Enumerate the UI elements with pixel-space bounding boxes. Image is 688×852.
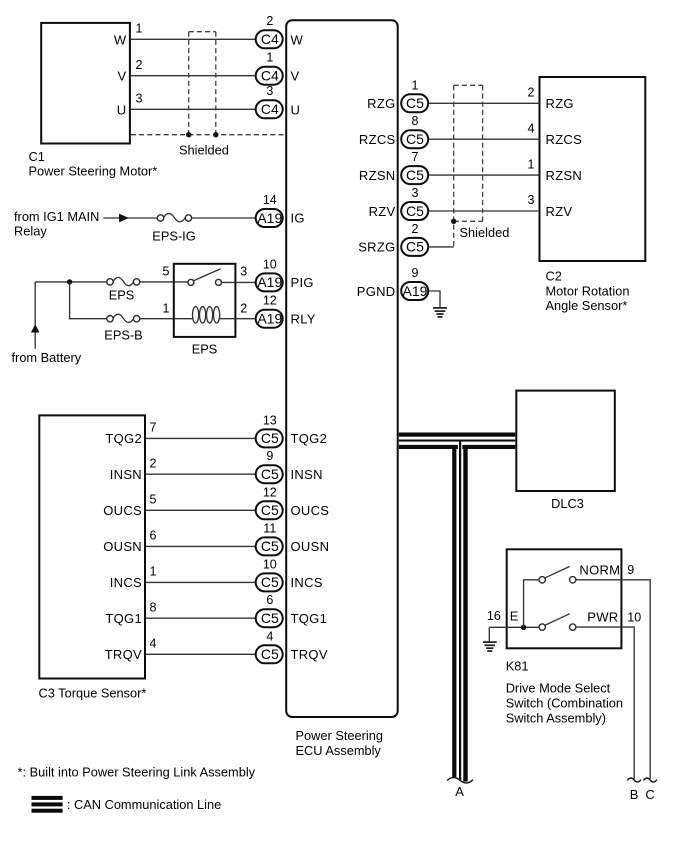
wire relay to PIG — [222, 281, 257, 283]
svg-text:C5: C5 — [406, 203, 424, 219]
svg-text:EPS-B: EPS-B — [104, 327, 142, 342]
wire RZCS — [429, 138, 540, 140]
ECU box Power Steering ECU Assembly — [286, 20, 398, 717]
svg-text:TQG1: TQG1 — [105, 611, 142, 626]
svg-text:12: 12 — [263, 294, 277, 308]
svg-text:from Battery: from Battery — [12, 350, 82, 365]
fuse EPS-B — [104, 314, 142, 342]
connector C5 pin 7 (RZSN) — [401, 150, 428, 184]
svg-text:12: 12 — [263, 485, 277, 499]
svg-text:OUSN: OUSN — [291, 539, 330, 554]
svg-text:OUCS: OUCS — [103, 503, 142, 518]
svg-text:1: 1 — [528, 157, 535, 171]
svg-text:C5: C5 — [406, 239, 424, 255]
ground PGND — [433, 308, 447, 317]
svg-text:INSN: INSN — [110, 467, 142, 482]
CAN bus horizontal bottom line — [399, 445, 516, 449]
DLC3 box — [516, 391, 615, 511]
svg-text:3: 3 — [266, 84, 273, 98]
svg-text:9: 9 — [266, 449, 273, 463]
svg-text:Switch Assembly): Switch Assembly) — [506, 711, 606, 726]
svg-text:9: 9 — [627, 563, 634, 577]
svg-text:TQG2: TQG2 — [105, 431, 142, 446]
connector C5 pin 3 (RZV) — [401, 186, 428, 220]
wire TQG1 — [146, 617, 256, 619]
svg-text:C1: C1 — [29, 149, 45, 164]
svg-text:W: W — [291, 32, 304, 47]
arrow from battery — [31, 324, 40, 332]
wire PWR to B — [576, 627, 634, 779]
switch NORM contacts — [539, 566, 576, 583]
wire E input — [489, 626, 539, 628]
wire fuse EPS-B to relay — [140, 318, 194, 320]
svg-text:10: 10 — [627, 611, 641, 625]
connector C5 pin 1 (RZG) — [401, 78, 428, 112]
svg-text:RLY: RLY — [291, 312, 316, 327]
CAN bus vertical left line — [452, 445, 456, 778]
relay switch contacts — [188, 269, 222, 286]
svg-text:RZCS: RZCS — [359, 132, 396, 147]
svg-text:*: Built into Power Steering L: *: Built into Power Steering Link Assemb… — [18, 765, 256, 780]
svg-text:RZCS: RZCS — [546, 132, 583, 147]
svg-text:1: 1 — [136, 22, 143, 36]
svg-text:8: 8 — [150, 600, 157, 614]
wire junction to NORM switch — [524, 580, 540, 628]
svg-text:A: A — [455, 784, 464, 799]
svg-text:1: 1 — [150, 565, 157, 579]
wire RZV — [429, 210, 540, 212]
svg-text:C5: C5 — [261, 466, 279, 482]
wire RZG — [429, 102, 540, 104]
wire PGND to ground — [429, 291, 440, 307]
fuse EPS-IG — [152, 213, 195, 243]
svg-text:C5: C5 — [261, 538, 279, 554]
svg-text:C5: C5 — [261, 610, 279, 626]
svg-text:RZV: RZV — [546, 204, 573, 219]
C3 box Torque Sensor — [39, 415, 147, 700]
svg-text:EPS: EPS — [109, 288, 135, 303]
connector C5 pin 8 (RZCS) — [401, 114, 428, 148]
connector C5 pin 13 (TQG2) — [256, 413, 283, 447]
C1 box Power Steering Motor — [29, 23, 158, 178]
svg-text:Drive Mode Select: Drive Mode Select — [506, 680, 611, 695]
svg-text:Shielded: Shielded — [460, 225, 510, 240]
svg-text:B: B — [630, 787, 639, 802]
connector C5 pin 2 (SRZG) — [401, 222, 428, 256]
wire INSN — [146, 473, 256, 475]
svg-text:2: 2 — [412, 222, 419, 236]
svg-text:C4: C4 — [261, 68, 279, 84]
svg-text:Power Steering: Power Steering — [296, 728, 384, 743]
CAN bus horizontal top line — [399, 433, 516, 437]
CAN bus horizontal middle line — [399, 440, 516, 442]
svg-text:from IG1 MAIN: from IG1 MAIN — [14, 209, 99, 224]
junction dot shield (sensor) — [451, 219, 456, 224]
svg-text:3: 3 — [528, 193, 535, 207]
junction dot shield right — [213, 132, 218, 137]
wire coil to RLY — [219, 318, 257, 320]
svg-text:INCS: INCS — [110, 575, 142, 590]
svg-text:TRQV: TRQV — [105, 647, 142, 662]
connector C5 pin 4 (TRQV) — [256, 629, 283, 663]
K81 box Drive Mode Select Switch — [506, 549, 623, 725]
connector C5 pin 9 (INSN) — [256, 449, 283, 483]
svg-text:Switch (Combination: Switch (Combination — [506, 696, 623, 711]
svg-text:10: 10 — [263, 257, 277, 271]
svg-text:A19: A19 — [257, 210, 282, 226]
svg-text:OUCS: OUCS — [291, 503, 330, 518]
svg-text:Angle Sensor*: Angle Sensor* — [546, 298, 628, 313]
connector C4 pin 2 (W) — [256, 14, 283, 48]
wire NORM to C — [576, 580, 650, 779]
wire TRQV — [146, 653, 256, 655]
relay EPS box — [174, 264, 236, 357]
connector A19 pin 10 (PIG) — [256, 257, 283, 291]
wire U — [131, 108, 256, 110]
connector A19 pin 9 (PGND) — [401, 266, 428, 300]
wire SRZG shield drain — [429, 246, 454, 248]
junction dot K81 — [521, 625, 526, 630]
svg-text:Shielded: Shielded — [179, 143, 229, 158]
svg-text:U: U — [117, 102, 127, 117]
svg-text:Motor Rotation: Motor Rotation — [546, 284, 630, 299]
svg-text:RZSN: RZSN — [359, 168, 396, 183]
connector C5 pin 11 (OUSN) — [256, 521, 283, 555]
wire IG — [104, 217, 257, 219]
svg-text:INSN: INSN — [291, 467, 323, 482]
svg-text:4: 4 — [150, 637, 157, 651]
wire break squiggle B — [627, 778, 641, 782]
svg-text:1: 1 — [412, 78, 419, 92]
svg-text:2: 2 — [528, 86, 535, 100]
svg-text:Relay: Relay — [14, 224, 47, 239]
svg-text:C5: C5 — [261, 574, 279, 590]
svg-text:C3 Torque Sensor*: C3 Torque Sensor* — [39, 686, 147, 701]
svg-text:C5: C5 — [261, 502, 279, 518]
connector C5 pin 6 (TQG1) — [256, 593, 283, 627]
relay coil — [193, 307, 220, 323]
svg-text:3: 3 — [240, 265, 247, 279]
shield dashed drain wire — [131, 134, 285, 136]
connector A19 pin 12 (RLY) — [256, 294, 283, 328]
svg-text:A19: A19 — [257, 274, 282, 290]
svg-text:5: 5 — [163, 265, 170, 279]
svg-text:2: 2 — [240, 302, 247, 316]
svg-text:TQG1: TQG1 — [291, 611, 328, 626]
svg-text:7: 7 — [150, 421, 157, 435]
svg-text:E: E — [510, 608, 519, 623]
wire EPS feed — [35, 281, 107, 283]
svg-text:DLC3: DLC3 — [551, 496, 584, 511]
svg-text:1: 1 — [163, 302, 170, 316]
connector C4 pin 1 (V) — [256, 50, 283, 84]
svg-text:16: 16 — [487, 609, 501, 623]
wire break squiggle A — [447, 777, 473, 783]
wire EPS-B branch — [70, 282, 107, 319]
wire OUCS — [146, 509, 256, 511]
svg-text:A19: A19 — [403, 283, 428, 299]
svg-text:5: 5 — [150, 493, 157, 507]
svg-text:Power Steering Motor*: Power Steering Motor* — [29, 163, 158, 178]
svg-text:10: 10 — [263, 557, 277, 571]
junction dot shield left — [186, 132, 191, 137]
fuse EPS — [107, 277, 140, 302]
svg-text:C5: C5 — [406, 131, 424, 147]
svg-text:13: 13 — [263, 413, 277, 427]
svg-text:RZV: RZV — [369, 204, 396, 219]
wire INCS — [146, 581, 256, 583]
wire break squiggle C — [643, 778, 657, 782]
svg-text:EPS: EPS — [192, 342, 218, 357]
svg-text:PIG: PIG — [291, 275, 314, 290]
svg-text:: CAN Communication Line: : CAN Communication Line — [67, 797, 221, 812]
svg-text:C5: C5 — [406, 95, 424, 111]
svg-text:K81: K81 — [506, 659, 529, 674]
svg-text:PGND: PGND — [357, 284, 396, 299]
svg-text:RZG: RZG — [546, 96, 574, 111]
wire TQG2 — [146, 437, 256, 439]
svg-text:RZG: RZG — [367, 96, 395, 111]
svg-text:2: 2 — [266, 14, 273, 28]
CAN legend bars — [32, 796, 63, 813]
svg-text:7: 7 — [412, 150, 419, 164]
svg-text:C2: C2 — [546, 269, 562, 284]
wire W — [131, 38, 256, 40]
CAN bus vertical middle line — [459, 441, 461, 780]
svg-text:2: 2 — [136, 58, 143, 72]
junction dot battery branch — [67, 279, 72, 284]
CAN bus vertical right line — [463, 445, 467, 782]
svg-text:C4: C4 — [261, 101, 279, 117]
svg-text:V: V — [118, 69, 127, 84]
svg-text:C4: C4 — [261, 31, 279, 47]
connector A19 pin 14 (IG) — [256, 193, 283, 227]
svg-text:OUSN: OUSN — [103, 539, 142, 554]
svg-text:INCS: INCS — [291, 575, 323, 590]
connector C5 pin 10 (INCS) — [256, 557, 283, 591]
svg-text:RZSN: RZSN — [546, 168, 583, 183]
connector C4 pin 3 (U) — [256, 84, 283, 118]
svg-text:1: 1 — [266, 50, 273, 64]
ground K81 — [483, 627, 497, 651]
svg-text:3: 3 — [136, 92, 143, 106]
wire from battery vertical — [34, 282, 36, 349]
svg-text:6: 6 — [266, 593, 273, 607]
svg-text:9: 9 — [412, 266, 419, 280]
svg-text:2: 2 — [150, 456, 157, 470]
svg-text:4: 4 — [528, 121, 535, 135]
wire V — [131, 75, 256, 77]
svg-text:TQG2: TQG2 — [291, 431, 328, 446]
svg-text:ECU Assembly: ECU Assembly — [296, 743, 382, 758]
shield dashed box (sensor) — [454, 85, 483, 247]
svg-text:6: 6 — [150, 529, 157, 543]
svg-text:14: 14 — [263, 193, 277, 207]
switch PWR contacts — [539, 614, 576, 631]
wire OUSN — [146, 545, 256, 547]
svg-text:NORM: NORM — [579, 562, 620, 577]
svg-text:W: W — [114, 32, 127, 47]
arrow from IG1 — [119, 214, 129, 223]
svg-text:V: V — [291, 69, 300, 84]
svg-text:C5: C5 — [261, 430, 279, 446]
svg-text:EPS-IG: EPS-IG — [152, 228, 195, 243]
connector C5 pin 12 (OUCS) — [256, 485, 283, 519]
wire RZSN — [429, 174, 540, 176]
svg-text:A19: A19 — [257, 311, 282, 327]
svg-text:U: U — [291, 102, 301, 117]
shield dashed box (motor) — [189, 32, 216, 135]
C2 box Motor Rotation Angle Sensor — [540, 77, 646, 313]
svg-text:C5: C5 — [261, 646, 279, 662]
svg-text:PWR: PWR — [587, 610, 618, 625]
svg-text:C: C — [645, 787, 655, 802]
svg-text:8: 8 — [412, 114, 419, 128]
svg-text:11: 11 — [263, 521, 276, 535]
wire fuse EPS to relay — [140, 281, 188, 283]
svg-text:C5: C5 — [406, 167, 424, 183]
svg-text:IG: IG — [291, 211, 305, 226]
svg-text:3: 3 — [412, 186, 419, 200]
svg-text:TRQV: TRQV — [291, 647, 328, 662]
svg-text:4: 4 — [266, 629, 273, 643]
svg-text:SRZG: SRZG — [358, 240, 395, 255]
